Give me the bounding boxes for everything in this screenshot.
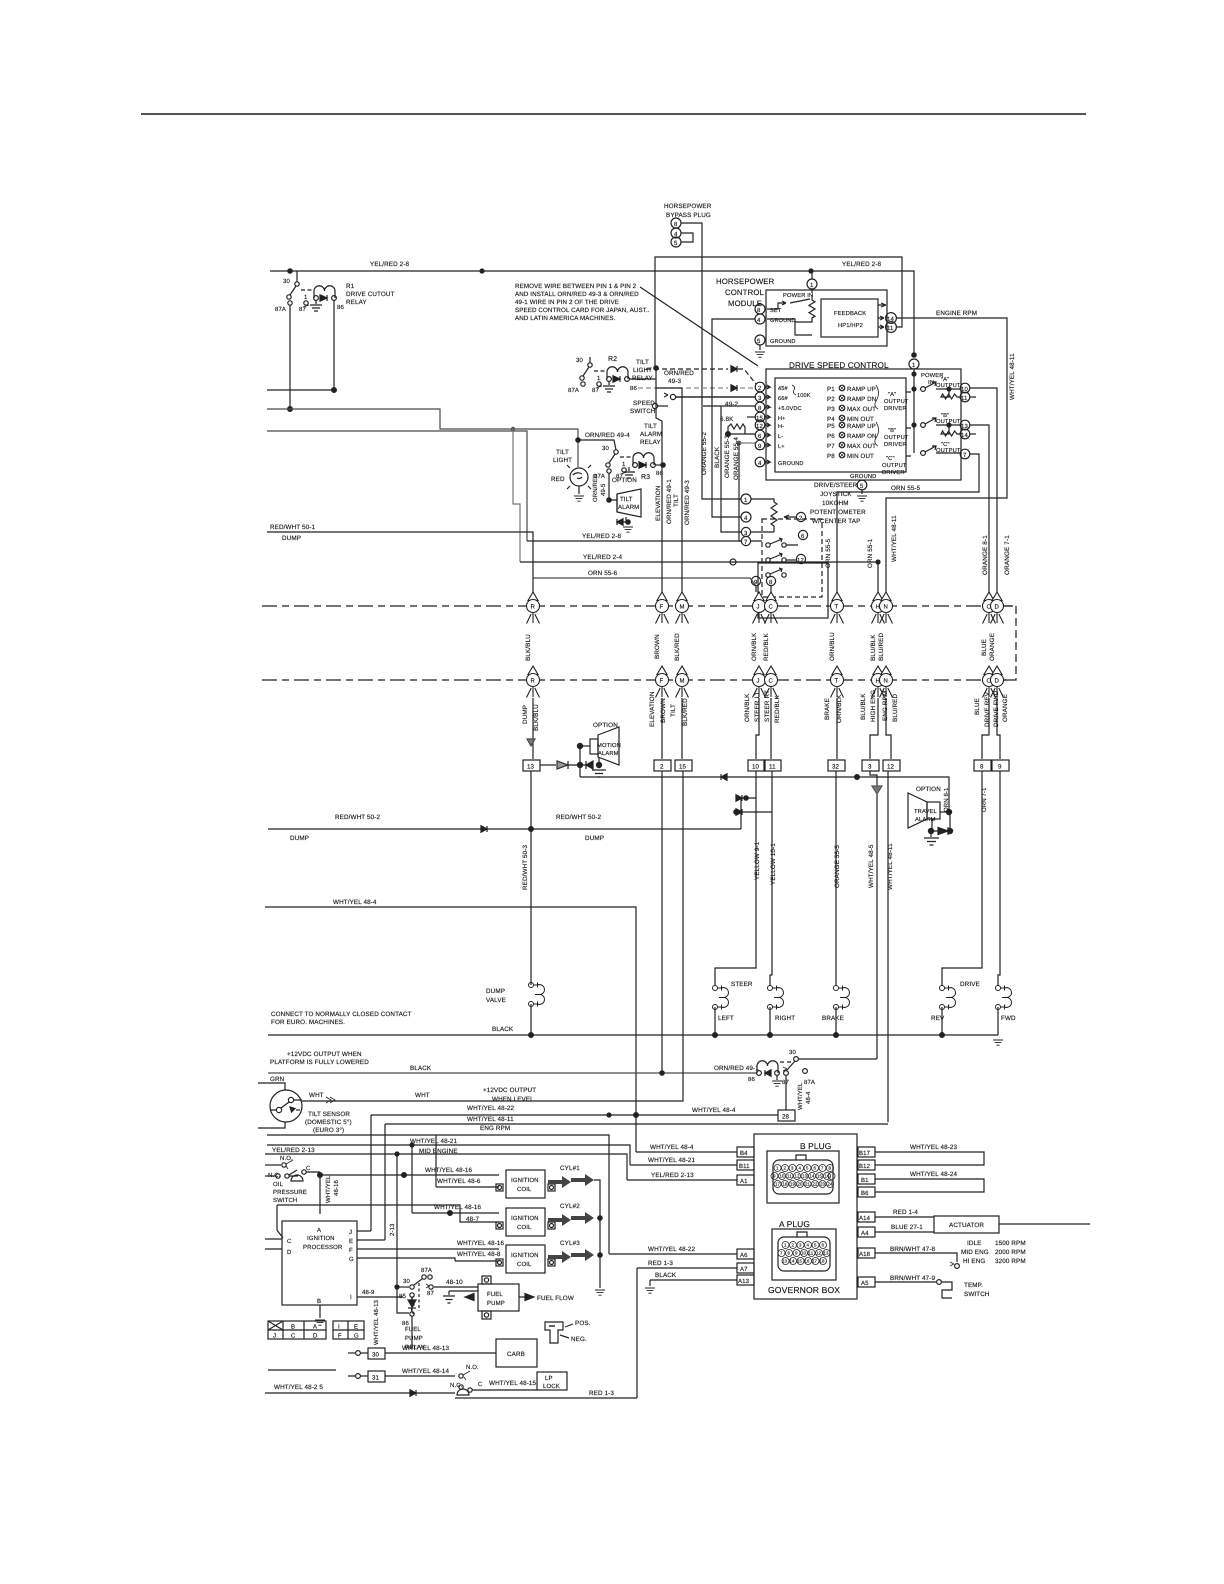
- svg-text:17: 17: [775, 1182, 781, 1187]
- svg-text:14: 14: [961, 432, 968, 439]
- svg-text:100K: 100K: [797, 393, 811, 399]
- svg-text:ENGINE RPM: ENGINE RPM: [936, 310, 977, 317]
- svg-text:13: 13: [527, 764, 535, 771]
- svg-text:19: 19: [790, 1182, 796, 1187]
- svg-text:48-9: 48-9: [362, 1289, 375, 1296]
- svg-text:45#: 45#: [778, 386, 788, 392]
- svg-text:F: F: [338, 1333, 342, 1340]
- pin A5 temp switch: [858, 1275, 990, 1298]
- svg-text:7: 7: [821, 1166, 824, 1171]
- svg-text:DRIVE CUTOUT: DRIVE CUTOUT: [346, 291, 395, 298]
- connector D row1: [991, 592, 1004, 624]
- svg-text:4: 4: [807, 1243, 810, 1248]
- svg-text:7: 7: [744, 539, 748, 546]
- svg-text:1: 1: [622, 461, 626, 468]
- svg-text:4: 4: [757, 317, 761, 324]
- svg-text:POS.: POS.: [575, 1320, 591, 1327]
- wire WHT/YEL 48-21 MID ENGINE: [267, 1115, 630, 1240]
- relay R2 tilt light: [568, 356, 656, 394]
- svg-text:8: 8: [980, 764, 984, 771]
- wires row2 down to numbered boxes: [533, 698, 1000, 759]
- wire to travel alarm: [580, 777, 949, 810]
- svg-text:MAX OUT: MAX OUT: [847, 443, 876, 450]
- svg-text:SPEED CONTROL CARD FOR JAPAN,: SPEED CONTROL CARD FOR JAPAN, AUST..: [515, 307, 650, 314]
- svg-text:GROUND: GROUND: [770, 339, 796, 345]
- svg-text:2: 2: [660, 764, 664, 771]
- svg-text:WHT/YEL 48-24: WHT/YEL 48-24: [910, 1171, 958, 1178]
- svg-text:16: 16: [825, 1174, 831, 1179]
- svg-text:1: 1: [744, 497, 748, 504]
- svg-text:1: 1: [597, 375, 601, 382]
- tilt alarm relay R3: [594, 423, 665, 481]
- wire ORN/RED 49-1 down to connector F: [656, 368, 662, 592]
- wire YEL/RED 2-8 loop from DSC pin 11: [655, 257, 902, 368]
- svg-text:ENG RPM: ENG RPM: [882, 691, 889, 721]
- svg-text:POTENTIOMETER: POTENTIOMETER: [810, 509, 866, 516]
- svg-text:C: C: [291, 1333, 296, 1340]
- LP lock switch: [450, 1364, 567, 1395]
- dash-dot frame right of C/D: [1004, 606, 1016, 680]
- svg-text:RELAY: RELAY: [346, 299, 367, 306]
- svg-text:RED 1-4: RED 1-4: [893, 1209, 918, 1216]
- svg-text:YEL/RED 2-8: YEL/RED 2-8: [582, 533, 621, 540]
- svg-text:A7: A7: [740, 1266, 748, 1273]
- svg-text:15: 15: [679, 764, 687, 771]
- svg-text:YELLOW 9-1: YELLOW 9-1: [754, 841, 761, 880]
- wire DSC pin 8 feed: [703, 405, 755, 407]
- svg-text:16: 16: [805, 1259, 811, 1264]
- svg-text:DUMP: DUMP: [282, 535, 301, 542]
- wire WHT/YEL 48-11 / ENG RPM rows: [267, 1116, 888, 1254]
- svg-text:TEMP.: TEMP.: [964, 1282, 983, 1289]
- svg-text:J: J: [349, 1229, 352, 1236]
- svg-text:11: 11: [769, 764, 776, 771]
- dash-dot bulkhead line row 2: [262, 679, 1010, 681]
- svg-text:A PLUG: A PLUG: [779, 1219, 810, 1229]
- svg-text:7: 7: [963, 452, 967, 459]
- svg-text:BLU/RED: BLU/RED: [878, 633, 885, 661]
- joystick labels: [810, 482, 866, 525]
- svg-text:BLK/RED: BLK/RED: [674, 633, 681, 661]
- wire WHT/YEL 48-16 to coil 1: [320, 1167, 499, 1214]
- svg-text:OPTION: OPTION: [593, 722, 618, 729]
- svg-text:F: F: [349, 1247, 353, 1254]
- svg-text:P2: P2: [827, 396, 835, 403]
- svg-text:2: 2: [799, 515, 803, 522]
- svg-text:G: G: [354, 1333, 359, 1340]
- svg-text:ALARM: ALARM: [618, 504, 639, 511]
- svg-text:FUEL: FUEL: [405, 1326, 421, 1333]
- svg-text:"A": "A": [888, 392, 896, 398]
- svg-text:T: T: [835, 678, 839, 685]
- svg-text:23: 23: [820, 1182, 826, 1187]
- svg-text:COIL: COIL: [517, 1186, 532, 1193]
- svg-text:6: 6: [801, 533, 805, 540]
- connector C2 row1: [983, 592, 996, 624]
- horsepower bypass plug: [664, 203, 712, 247]
- svg-text:28: 28: [782, 1114, 790, 1121]
- svg-text:13: 13: [802, 1174, 808, 1179]
- grey diode on dump wire: [527, 739, 535, 746]
- svg-text:12: 12: [795, 1174, 801, 1179]
- svg-text:H-: H-: [778, 424, 784, 430]
- svg-text:ORANGE: ORANGE: [989, 633, 996, 661]
- svg-text:2-13: 2-13: [389, 1223, 396, 1236]
- svg-text:3: 3: [799, 1243, 802, 1248]
- svg-text:IGNITION: IGNITION: [511, 1177, 539, 1184]
- svg-text:VALVE: VALVE: [486, 997, 506, 1004]
- wire WHT/YEL 48-6: [436, 1135, 499, 1187]
- svg-text:YEL/RED 2-13: YEL/RED 2-13: [272, 1147, 315, 1154]
- svg-text:HI ENG: HI ENG: [963, 1258, 985, 1265]
- ignition coil 3: [389, 1240, 605, 1295]
- svg-text:21: 21: [805, 1182, 811, 1187]
- svg-text:DRIVE REV: DRIVE REV: [984, 691, 991, 727]
- joystick drive/steer potentiometer: [741, 494, 828, 618]
- svg-text:J: J: [757, 604, 760, 611]
- svg-text:ORN/BLK: ORN/BLK: [744, 693, 751, 722]
- svg-text:1: 1: [784, 1243, 787, 1248]
- rpm table: [961, 1240, 1026, 1265]
- connector H row2: [872, 666, 885, 698]
- svg-text:18: 18: [783, 1182, 789, 1187]
- svg-text:85: 85: [399, 1293, 406, 1300]
- pin A6: [609, 1246, 754, 1259]
- svg-text:R: R: [531, 604, 536, 611]
- svg-text:87: 87: [592, 387, 599, 394]
- svg-text:ORANGE 55-2: ORANGE 55-2: [701, 432, 708, 475]
- svg-text:30: 30: [372, 1352, 380, 1359]
- svg-text:"C": "C": [886, 455, 895, 462]
- svg-text:WHT/YEL 48-13: WHT/YEL 48-13: [373, 1299, 380, 1345]
- svg-text:REMOVE WIRE BETWEEN PIN 1 & PI: REMOVE WIRE BETWEEN PIN 1 & PIN 2: [515, 283, 637, 290]
- svg-text:22: 22: [813, 1182, 819, 1187]
- svg-text:WHT/YEL: WHT/YEL: [325, 1175, 332, 1203]
- svg-text:R1: R1: [346, 283, 355, 290]
- svg-text:9: 9: [758, 443, 762, 450]
- svg-text:B1: B1: [861, 1177, 869, 1184]
- svg-text:POWER IN: POWER IN: [783, 292, 813, 299]
- pin A7: [637, 1260, 754, 1398]
- wire BLACK column from HP module gnd to joystick pin 4: [712, 319, 755, 517]
- dashed wire with diode into DSC pin 2 upper: [646, 366, 756, 384]
- pin A13: [645, 1272, 754, 1293]
- svg-text:FUEL FLOW: FUEL FLOW: [537, 1295, 574, 1302]
- svg-text:ACTUATOR: ACTUATOR: [949, 1222, 984, 1229]
- svg-text:RED/BLK: RED/BLK: [774, 695, 781, 723]
- svg-text:1: 1: [776, 1166, 779, 1171]
- svg-text:ORN/RED: ORN/RED: [664, 370, 694, 377]
- speed switch: [630, 393, 755, 415]
- svg-text:TRAVEL: TRAVEL: [914, 809, 937, 815]
- svg-text:TILT: TILT: [644, 423, 657, 430]
- tilt light lamp: [551, 449, 591, 501]
- connector C row1: [765, 592, 778, 624]
- svg-text:DRIVER: DRIVER: [882, 470, 905, 476]
- distributor grid A-G: [268, 1321, 364, 1340]
- svg-text:87A: 87A: [804, 1079, 815, 1086]
- svg-text:ORN 55-6: ORN 55-6: [588, 570, 618, 577]
- svg-text:A13: A13: [738, 1278, 750, 1285]
- horsepower control module: [716, 271, 896, 357]
- pin B4: [636, 1144, 754, 1157]
- connector T row1: [831, 592, 844, 624]
- svg-text:ORN/BLK: ORN/BLK: [836, 694, 843, 723]
- svg-text:ENG RPM: ENG RPM: [480, 1125, 510, 1132]
- svg-text:ORN 7-1: ORN 7-1: [981, 787, 988, 812]
- svg-text:BLK/RED: BLK/RED: [682, 698, 689, 726]
- svg-text:4: 4: [758, 460, 762, 467]
- svg-text:32: 32: [832, 764, 840, 771]
- svg-text:DRIVER: DRIVER: [884, 406, 907, 412]
- svg-text:WHT/YEL 48-4: WHT/YEL 48-4: [333, 899, 377, 906]
- svg-text:8: 8: [769, 579, 773, 586]
- svg-text:IGNITION: IGNITION: [307, 1235, 335, 1242]
- pin A1: [627, 1172, 754, 1185]
- svg-text:MID ENG: MID ENG: [961, 1249, 989, 1256]
- svg-text:COIL: COIL: [517, 1261, 532, 1268]
- svg-text:STEER RT: STEER RT: [764, 690, 771, 722]
- wire BLACK / ORN-RED 49-1 to platform relay: [268, 771, 759, 1075]
- svg-text:ALARM: ALARM: [640, 431, 662, 438]
- svg-text:BLK/BLU: BLK/BLU: [533, 704, 540, 731]
- svg-text:RELAY: RELAY: [640, 439, 661, 446]
- wire ORANGE 55-3 column to joystick pin 3: [721, 406, 741, 532]
- svg-text:BLU/RED: BLU/RED: [892, 694, 899, 722]
- svg-text:WHT/YEL 48-4: WHT/YEL 48-4: [650, 1144, 694, 1151]
- svg-text:WHT/YEL 48-11: WHT/YEL 48-11: [467, 1116, 514, 1123]
- svg-text:SWITCH: SWITCH: [630, 408, 656, 415]
- svg-text:BLU/BLK: BLU/BLK: [870, 634, 877, 661]
- svg-text:PLATFORM IS FULLY LOWERED: PLATFORM IS FULLY LOWERED: [270, 1059, 369, 1066]
- svg-text:C: C: [769, 604, 774, 611]
- svg-text:SWITCH: SWITCH: [964, 1291, 990, 1298]
- euro note: [271, 1011, 412, 1026]
- svg-text:P4: P4: [827, 416, 835, 423]
- svg-text:10: 10: [752, 764, 760, 771]
- left wire y431 staircase to YEL/RED 2-8: [267, 431, 527, 541]
- pin B11: [630, 1157, 754, 1170]
- svg-text:14: 14: [810, 1174, 816, 1179]
- svg-text:P6: P6: [827, 433, 835, 440]
- svg-text:HIGH ENG: HIGH ENG: [870, 690, 877, 722]
- ignition processor: [265, 1205, 455, 1325]
- svg-text:REV: REV: [931, 1015, 945, 1022]
- svg-text:86: 86: [337, 304, 344, 311]
- svg-text:RIGHT: RIGHT: [775, 1015, 795, 1022]
- vertical labels ORANGE 55-2 BLACK ORANGE 55-3 ORANGE 55-4: [701, 432, 740, 480]
- wire 87 down to terminal 28: [786, 1076, 812, 1110]
- connector C row2: [765, 666, 778, 698]
- left wire y409 staircase to tilt light: [267, 409, 578, 467]
- svg-text:D: D: [287, 1249, 292, 1256]
- pin A14 actuator: [858, 1209, 1090, 1237]
- dump valve coil: [486, 983, 544, 1038]
- svg-text:11: 11: [809, 1251, 814, 1256]
- svg-text:B PLUG: B PLUG: [800, 1141, 831, 1151]
- svg-text:E: E: [354, 1324, 358, 1331]
- svg-text:D: D: [995, 678, 1000, 685]
- svg-text:BYPASS PLUG: BYPASS PLUG: [666, 212, 711, 219]
- travel alarm option: [908, 786, 953, 845]
- top rule: [141, 113, 1086, 115]
- svg-text:RAMP ON: RAMP ON: [847, 433, 877, 440]
- svg-text:TILT: TILT: [670, 704, 677, 717]
- svg-text:WHT/YEL 48-11: WHT/YEL 48-11: [887, 843, 894, 890]
- svg-text:I: I: [338, 1324, 340, 1331]
- svg-text:ORANGE: ORANGE: [1002, 694, 1009, 722]
- wire YEL/RED 2-8 mid: [527, 533, 741, 541]
- svg-text:BLACK: BLACK: [714, 446, 721, 468]
- svg-text:A4: A4: [861, 1230, 869, 1237]
- svg-text:STEER LT: STEER LT: [754, 691, 761, 722]
- svg-text:LOCK: LOCK: [543, 1383, 560, 1390]
- svg-text:WHT/YEL 48-23: WHT/YEL 48-23: [910, 1144, 958, 1151]
- svg-text:4: 4: [744, 515, 748, 522]
- svg-text:OPTION: OPTION: [612, 477, 637, 484]
- svg-text:P1: P1: [827, 386, 835, 393]
- drive fwd coil: [996, 986, 1017, 1036]
- svg-text:ORN 8-1: ORN 8-1: [943, 787, 950, 812]
- svg-text:BLK/BLU: BLK/BLU: [525, 634, 532, 661]
- svg-text:DUMP: DUMP: [486, 988, 505, 995]
- CARB box: [496, 1339, 537, 1367]
- steer left coil: [713, 981, 753, 1037]
- wire YEL/RED 2-8 top: [270, 261, 916, 357]
- svg-text:YEL/RED 2-4: YEL/RED 2-4: [583, 554, 622, 561]
- wire ORN/RED 49-4: [576, 432, 630, 450]
- wire ORANGE 55-2 from bypass plug pin 8 down to joystick pin 1: [681, 223, 741, 499]
- svg-text:8: 8: [829, 1166, 832, 1171]
- svg-text:ORANGE 55-5: ORANGE 55-5: [834, 845, 841, 888]
- svg-text:MAX OUT: MAX OUT: [847, 406, 876, 413]
- svg-text:+12VDC OUTPUT WHEN: +12VDC OUTPUT WHEN: [287, 1051, 362, 1058]
- wire from R1 87A down: [289, 305, 291, 409]
- svg-text:L+: L+: [778, 444, 785, 450]
- svg-text:RED/BLK: RED/BLK: [763, 633, 770, 661]
- svg-text:31: 31: [372, 1375, 380, 1382]
- drive rev coil: [931, 981, 980, 1037]
- svg-text:18: 18: [820, 1259, 826, 1264]
- svg-text:24: 24: [828, 1182, 834, 1187]
- svg-text:J: J: [273, 1333, 276, 1340]
- grey staircase to YEL/RED 2-4: [513, 429, 520, 562]
- svg-text:D: D: [995, 604, 1000, 611]
- wire ORANGE 55-4 column to joystick pin 7: [739, 443, 741, 541]
- svg-text:8: 8: [758, 405, 762, 412]
- svg-text:30: 30: [283, 278, 290, 285]
- svg-text:NEG.: NEG.: [571, 1336, 587, 1343]
- terminal 31 box: [268, 1368, 455, 1382]
- svg-text:6: 6: [814, 1166, 817, 1171]
- connector H row1: [872, 592, 885, 624]
- svg-text:OUTPUT: OUTPUT: [884, 398, 909, 405]
- svg-text:CONTROL: CONTROL: [725, 288, 765, 297]
- svg-text:A5: A5: [861, 1280, 869, 1287]
- relay R1 drive cutout: [275, 271, 395, 313]
- svg-text:48-4: 48-4: [805, 1091, 812, 1104]
- DSC P1-P8: [827, 385, 909, 476]
- svg-text:CARB: CARB: [507, 1351, 525, 1358]
- svg-text:8: 8: [757, 307, 761, 314]
- svg-text:DUMP: DUMP: [290, 835, 309, 842]
- svg-text:49-1 WIRE IN PIN 2 OF THE DRIV: 49-1 WIRE IN PIN 2 OF THE DRIVE: [515, 299, 619, 306]
- svg-text:WHT/YEL 48-11: WHT/YEL 48-11: [1009, 353, 1016, 400]
- connector N row2: [880, 666, 893, 698]
- platform level relay: [748, 1049, 877, 1086]
- svg-text:L-: L-: [778, 434, 783, 440]
- steer feed diodes: [734, 795, 772, 829]
- svg-text:DUMP: DUMP: [585, 835, 604, 842]
- svg-text:BRN/WHT 47-8: BRN/WHT 47-8: [890, 1246, 935, 1253]
- governor box: [754, 1134, 857, 1299]
- oil pressure switch: [265, 1155, 322, 1204]
- A plug connector: [772, 1229, 836, 1280]
- connector M row1: [676, 592, 689, 624]
- svg-text:IGNITION: IGNITION: [511, 1215, 539, 1222]
- svg-text:BRN/WHT 47-9: BRN/WHT 47-9: [890, 1275, 935, 1282]
- svg-text:DRIVE FWD: DRIVE FWD: [993, 690, 1000, 727]
- svg-text:BROWN: BROWN: [660, 698, 667, 723]
- svg-text:+12VDC OUTPUT: +12VDC OUTPUT: [483, 1087, 536, 1094]
- svg-text:P5: P5: [827, 423, 835, 430]
- svg-text:CYL#3: CYL#3: [560, 1240, 580, 1247]
- svg-text:86: 86: [748, 1076, 755, 1083]
- svg-text:CYL#2: CYL#2: [560, 1203, 580, 1210]
- numbered terminal boxes row: [523, 760, 1009, 771]
- svg-text:ORN/RED 49-1: ORN/RED 49-1: [714, 1065, 759, 1072]
- grey dashed wire with diode into DSC pin 2: [638, 385, 754, 391]
- svg-text:5: 5: [806, 1166, 809, 1171]
- wire 49-2 speed switch to pin 3: [675, 397, 755, 408]
- svg-text:BLUE: BLUE: [974, 698, 981, 715]
- connector R row1: [527, 592, 540, 624]
- svg-text:12: 12: [756, 423, 763, 430]
- svg-text:LIGHT: LIGHT: [553, 457, 572, 464]
- svg-text:B11: B11: [739, 1163, 750, 1170]
- svg-text:FUEL: FUEL: [487, 1291, 503, 1298]
- pin A18 temp switch feed: [858, 1246, 959, 1268]
- svg-text:YEL/RED 2-8: YEL/RED 2-8: [842, 261, 881, 268]
- svg-text:49-5: 49-5: [600, 483, 607, 496]
- svg-text:(EURO 3°): (EURO 3°): [313, 1127, 344, 1134]
- svg-text:(DOMESTIC 5°): (DOMESTIC 5°): [305, 1119, 352, 1126]
- svg-text:49-3: 49-3: [668, 378, 681, 385]
- svg-text:13: 13: [782, 1259, 788, 1264]
- svg-text:49-2: 49-2: [725, 401, 738, 408]
- vertical labels ELEVATION / ORN-RED 49-1 / TILT / ORN-RED 49-3: [655, 479, 691, 525]
- svg-text:WHT/YEL 48-8: WHT/YEL 48-8: [457, 1251, 501, 1258]
- svg-text:ORANGE 55-4: ORANGE 55-4: [733, 437, 740, 480]
- wire YEL/RED 2-4 mid: [520, 554, 878, 565]
- svg-text:PROCESSOR: PROCESSOR: [303, 1244, 343, 1251]
- svg-text:A6: A6: [740, 1252, 748, 1259]
- svg-text:A: A: [317, 1227, 321, 1234]
- svg-text:M: M: [680, 604, 685, 611]
- svg-text:OIL: OIL: [273, 1181, 284, 1188]
- svg-text:WHT/YEL 48-21: WHT/YEL 48-21: [648, 1157, 696, 1164]
- svg-text:GOVERNOR BOX: GOVERNOR BOX: [768, 1285, 840, 1295]
- svg-text:87A: 87A: [568, 387, 579, 394]
- inter-row wire labels: [525, 632, 996, 661]
- svg-text:"B": "B": [888, 428, 896, 434]
- terminal 30 box: [348, 1345, 496, 1359]
- svg-text:PRESSURE: PRESSURE: [273, 1189, 307, 1196]
- svg-text:AND LATIN AMERICA MACHINES.: AND LATIN AMERICA MACHINES.: [515, 315, 616, 322]
- wire RED/WHT 50-1 DUMP: [267, 524, 533, 592]
- svg-text:B17: B17: [859, 1150, 871, 1157]
- svg-text:OUTPUT: OUTPUT: [882, 462, 907, 469]
